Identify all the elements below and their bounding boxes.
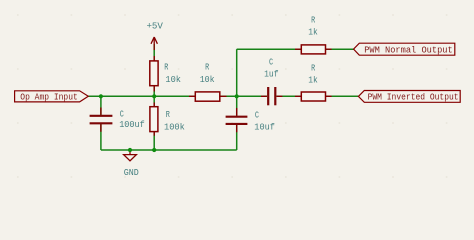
wire main horizontal net from Op Amp Input label to C1 left plate (88, 95, 267, 97)
svg-text:Op Amp Input: Op Amp Input (20, 91, 78, 102)
global label Op Amp Input (15, 91, 89, 103)
svg-text:C: C (255, 109, 259, 120)
svg-text:R: R (205, 61, 209, 72)
global label PWM Inverted Output (358, 91, 460, 103)
resistor R3 100k vertical (150, 103, 185, 136)
junction node ground rail / GND (128, 148, 132, 152)
resistor R2 10k horizontal (189, 61, 227, 101)
svg-text:10k: 10k (200, 74, 215, 85)
wire top branch horizontal to PWM Normal Output label (237, 48, 354, 50)
wire R3 100k column (153, 96, 155, 150)
global label PWM Normal Output (354, 43, 455, 55)
svg-text:1uf: 1uf (264, 68, 278, 79)
junction node at op-amp input / C2 branch (99, 94, 103, 98)
wire C3 10uf column upper (236, 96, 238, 116)
capacitor C1 1uf horizontal (261, 57, 282, 106)
svg-text:1k: 1k (308, 27, 318, 38)
power symbol +5V (151, 37, 157, 50)
svg-text:PWM Inverted Output: PWM Inverted Output (368, 92, 459, 103)
svg-text:C: C (120, 108, 124, 119)
wire top branch vertical riser at x=236.7 (236, 49, 238, 96)
capacitor C2 100uf (90, 108, 145, 132)
svg-text:R: R (311, 62, 315, 73)
ground (124, 150, 140, 178)
svg-text:100k: 100k (164, 121, 185, 132)
junction node at C3 / top branch (235, 94, 239, 98)
svg-text:R: R (166, 109, 170, 120)
wire from C1 right plate to PWM Inverted Output label (276, 95, 358, 97)
svg-text:10k: 10k (165, 74, 181, 85)
svg-text:GND: GND (124, 167, 139, 178)
junction node at R1/R3 divider (152, 94, 156, 98)
capacitor C3 10uf vertical (226, 108, 275, 133)
resistor R4 1k top branch (295, 14, 332, 54)
wire C2 100uf column lower (100, 124, 102, 150)
resistor R5 1k bottom branch (295, 62, 332, 101)
svg-text:R: R (311, 14, 315, 25)
svg-text:100uf: 100uf (119, 119, 145, 130)
wire +5V power column (153, 44, 155, 96)
svg-text:R: R (164, 61, 168, 72)
svg-text:1k: 1k (308, 75, 318, 86)
junction node ground rail / R3 (152, 148, 156, 152)
wire C3 10uf column lower (236, 125, 238, 150)
svg-text:C: C (269, 57, 273, 68)
grid dots (17, 14, 448, 178)
resistor R1 10k vertical (150, 56, 182, 92)
svg-text:+5V: +5V (146, 21, 163, 32)
wire ground rail (101, 149, 237, 151)
svg-text:10uf: 10uf (254, 122, 275, 133)
svg-text:PWM Normal Output: PWM Normal Output (364, 44, 453, 55)
wire C2 100uf column upper (100, 96, 102, 115)
